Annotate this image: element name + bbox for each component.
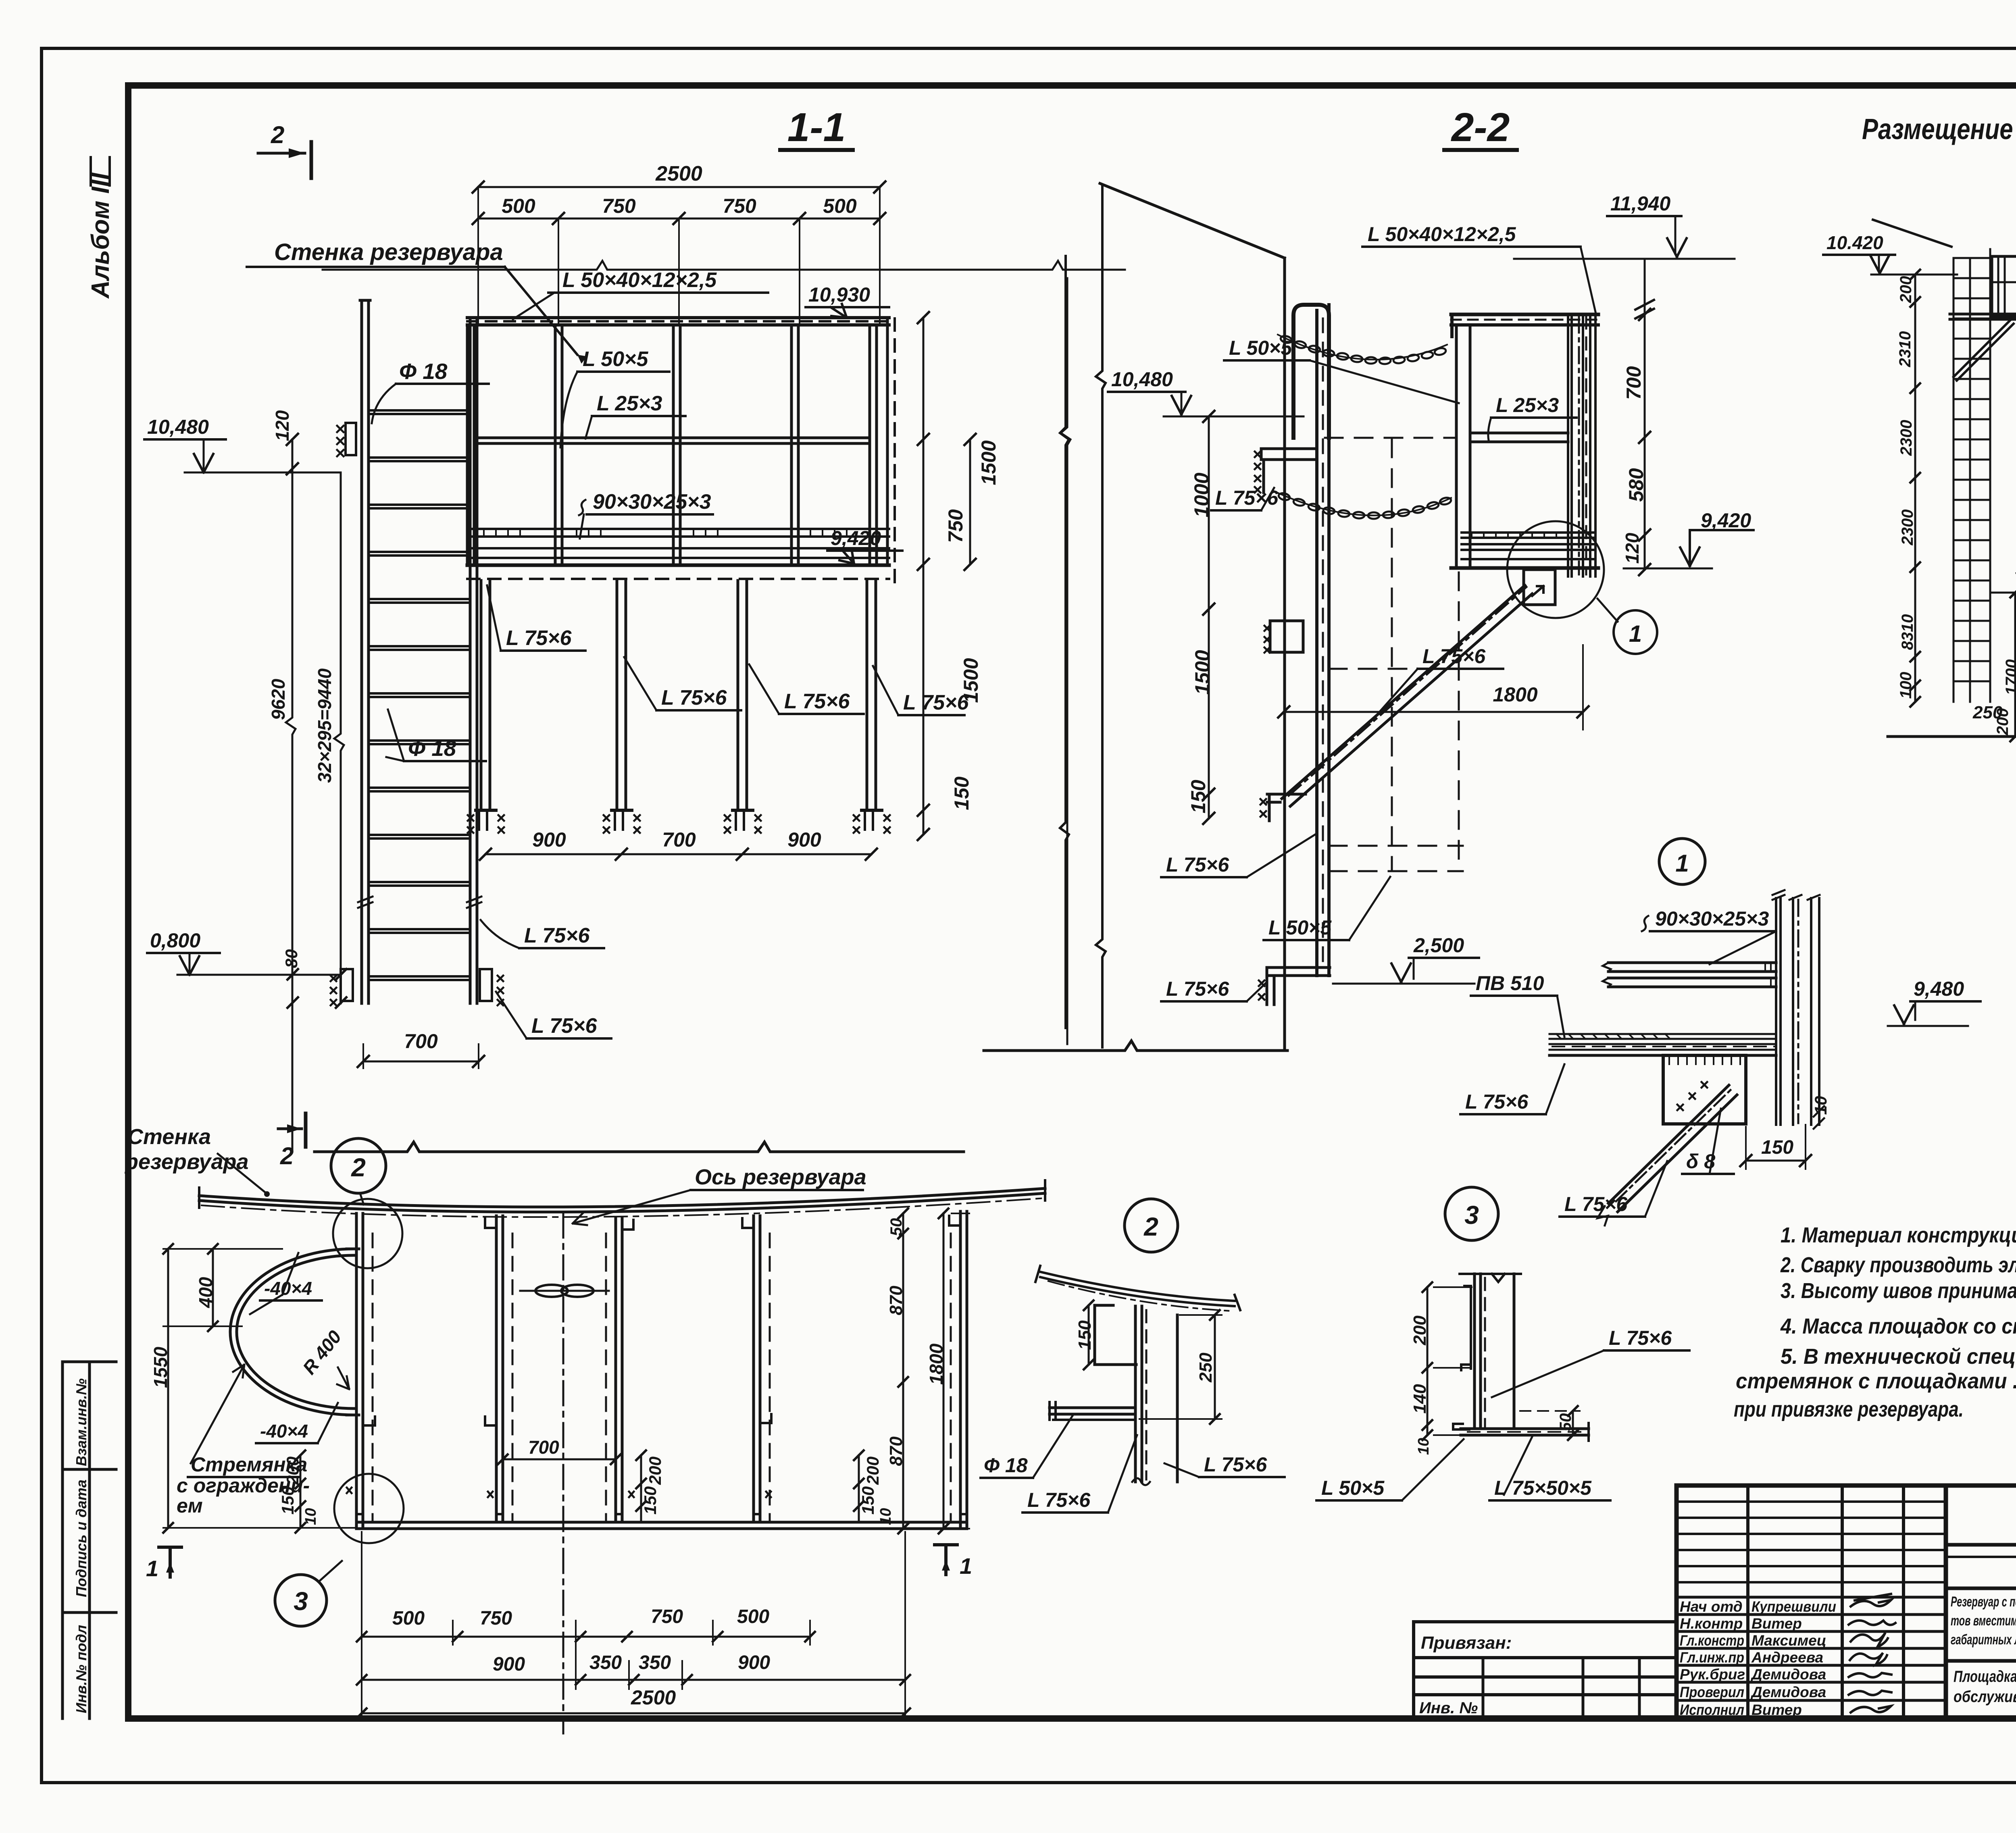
svg-text:1500: 1500	[960, 658, 982, 703]
svg-text:1550: 1550	[150, 1346, 171, 1388]
plan dim extension verticals	[362, 1532, 905, 1716]
svg-text:870: 870	[886, 1436, 906, 1466]
section mark 2 bottom	[304, 1113, 308, 1147]
svg-text:90×30×25×3: 90×30×25×3	[1655, 907, 1769, 930]
label R 400 (plan)	[298, 1326, 346, 1378]
svg-text:200: 200	[863, 1456, 882, 1485]
signature column texts	[1680, 1598, 1836, 1718]
detail 3 post	[1473, 1274, 1476, 1429]
detail 1 plank bars	[1608, 963, 1776, 987]
svg-text:Стенка: Стенка	[127, 1125, 211, 1149]
svg-text:1500: 1500	[977, 440, 1000, 485]
svg-text:Гл.констр: Гл.констр	[1680, 1632, 1744, 1649]
svg-text:L 25×3: L 25×3	[597, 392, 662, 415]
detail 1 title circle	[1659, 838, 1705, 884]
svg-text:Нач отд: Нач отд	[1680, 1598, 1743, 1615]
svg-text:Демидова: Демидова	[1750, 1684, 1826, 1700]
svg-text:400: 400	[195, 1277, 216, 1308]
svg-text:120: 120	[1622, 533, 1643, 564]
section mark 1 left	[159, 1547, 181, 1577]
detail 2 rail bar	[1050, 1406, 1134, 1409]
bottom band	[1946, 1659, 2016, 1663]
ground line 1-1	[314, 1142, 964, 1152]
tank wall top reference line	[323, 261, 1125, 270]
svg-text:150: 150	[1761, 1137, 1793, 1158]
detail circle on 2-2	[1507, 521, 1604, 618]
svg-text:10,480: 10,480	[1111, 368, 1173, 391]
svg-text:150: 150	[858, 1486, 877, 1515]
ground line 2-2	[984, 1041, 1287, 1051]
svg-text:Стенка резервуара: Стенка резервуара	[274, 239, 503, 265]
svg-text:Взам.инв.№: Взам.инв.№	[73, 1378, 90, 1466]
svg-text:L 50×40×12×2,5: L 50×40×12×2,5	[1368, 223, 1516, 246]
svg-text:1: 1	[1629, 621, 1642, 647]
detail 1 support block	[1663, 1055, 1746, 1124]
svg-text:Проверил: Проверил	[1680, 1684, 1744, 1700]
leg weld marks	[468, 815, 890, 833]
signature scribbles	[1849, 1594, 1895, 1712]
dim 2500	[478, 186, 880, 188]
svg-text:10,930: 10,930	[808, 283, 870, 306]
svg-text:Ф 18: Ф 18	[408, 736, 456, 761]
svg-text:3: 3	[1464, 1201, 1479, 1230]
plan guard hoop	[230, 1249, 354, 1415]
svg-text:Резервуар с понтоном для нефте: Резервуар с понтоном для нефтепродук-	[1951, 1594, 2016, 1610]
deck hatch 2-2	[1472, 533, 1556, 538]
svg-text:Инв.№ подл: Инв.№ подл	[73, 1625, 90, 1713]
svg-text:150: 150	[641, 1486, 660, 1515]
svg-text:Привязан:: Привязан:	[1421, 1633, 1512, 1653]
svg-text:50: 50	[887, 1218, 905, 1236]
svg-text:2: 2	[351, 1153, 366, 1182]
svg-text:500: 500	[392, 1608, 425, 1629]
svg-text:900: 900	[738, 1652, 770, 1673]
wall console lower 2-2	[1270, 621, 1303, 652]
svg-text:тов вместимостью 2000 м³ из кр: тов вместимостью 2000 м³ из крупно-	[1951, 1613, 2016, 1629]
code cell 704-1-236.88	[1946, 1543, 2016, 1547]
svg-text:9,420: 9,420	[831, 527, 881, 549]
plan bottom dim row 3 (2500)	[362, 1712, 905, 1714]
svg-text:L 75×6: L 75×6	[1027, 1489, 1091, 1511]
svg-text:750: 750	[723, 195, 756, 217]
svg-text:150: 150	[1075, 1320, 1095, 1350]
svg-text:9,480: 9,480	[1914, 978, 1964, 1000]
svg-text:Максимец: Максимец	[1752, 1632, 1826, 1649]
detail 2 roof curve	[1040, 1277, 1235, 1306]
svg-text:2500: 2500	[631, 1686, 676, 1709]
svg-text:-40×4: -40×4	[260, 1421, 308, 1442]
platform 2-2 left post	[1455, 325, 1458, 566]
wall console bracket mid	[1261, 449, 1315, 460]
svg-text:750: 750	[480, 1608, 512, 1629]
svg-text:9,420: 9,420	[1701, 509, 1751, 532]
platform legs	[481, 580, 876, 810]
svg-text:Инв. №: Инв. №	[1419, 1699, 1478, 1717]
svg-text:900: 900	[532, 828, 566, 851]
svg-text:10.420: 10.420	[1826, 232, 1883, 253]
svg-text:габаритных листов проката: габаритных листов проката	[1951, 1632, 2016, 1648]
ladder right rail	[469, 318, 472, 1003]
svg-text:140: 140	[1410, 1384, 1430, 1414]
dim 700 under ladder	[363, 1061, 479, 1063]
svg-text:2: 2	[280, 1142, 294, 1169]
weld lens symbols on centerline	[520, 1290, 609, 1292]
svg-text:870: 870	[886, 1286, 906, 1315]
svg-text:L 50×5: L 50×5	[583, 347, 648, 371]
svg-text:9620: 9620	[268, 678, 289, 720]
svg-text:2500: 2500	[655, 162, 702, 185]
platform top handrail	[467, 316, 889, 319]
post marks on bottom rail	[356, 1514, 967, 1522]
svg-text:L 75×6: L 75×6	[1609, 1327, 1672, 1349]
svg-text:Демидова: Демидова	[1750, 1666, 1826, 1683]
dim 10 detail1	[1811, 1096, 1830, 1115]
svg-text:4. Масса площадок со стремя: 4. Масса площадок со стремянкой -725 кг	[1780, 1314, 2016, 1338]
svg-text:Ось резервуара: Ось резервуара	[695, 1165, 866, 1189]
plan centerline	[562, 1213, 564, 1733]
svg-text:200: 200	[1897, 276, 1915, 304]
svg-text:900: 900	[493, 1654, 525, 1675]
chain 2	[1274, 491, 1451, 516]
svg-text:1000: 1000	[1190, 472, 1213, 517]
svg-text:2,500: 2,500	[1413, 934, 1464, 957]
svg-text:Витер: Витер	[1752, 1702, 1802, 1718]
ladder rail break marks	[358, 897, 481, 908]
svg-text:L 25×3: L 25×3	[1496, 394, 1559, 416]
svg-text:Рук.бриг: Рук.бриг	[1680, 1666, 1745, 1683]
platform 2-2 top rail	[1451, 313, 1598, 316]
left mini view: platform side box	[1992, 256, 2016, 317]
left mini view: deck	[1950, 313, 2016, 316]
svg-text:ем: ем	[177, 1494, 203, 1517]
svg-text:2. Сварку производить электр: 2. Сварку производить электродами типа 3…	[1780, 1253, 2016, 1277]
tank wall vertical	[1283, 258, 1286, 1051]
dim 250 detail2	[1196, 1352, 1216, 1383]
callout circle 1	[1597, 599, 1618, 622]
left margin stamp table	[62, 1362, 116, 1719]
svg-text:250: 250	[1196, 1352, 1216, 1383]
svg-text:580: 580	[1625, 468, 1647, 502]
left mini view: brace	[1954, 320, 2010, 377]
ladder rungs	[369, 410, 470, 980]
svg-text:150: 150	[950, 776, 973, 810]
description row	[1946, 1587, 2016, 1590]
svg-text:1-1: 1-1	[787, 105, 846, 150]
svg-text:150: 150	[278, 1486, 297, 1515]
svg-text:L 75×6: L 75×6	[1465, 1090, 1529, 1113]
svg-text:1. Материал конструкций см. в: 1. Материал конструкций см. в техническо…	[1781, 1223, 2016, 1247]
brace wall console	[1267, 794, 1306, 821]
plan beams	[496, 1216, 760, 1522]
left dim line of 2-2	[1208, 416, 1210, 818]
plan: tank wall arc	[199, 1188, 1045, 1207]
ladder loop top (bent stile)	[1293, 305, 1329, 438]
railing posts	[467, 318, 887, 564]
plan platform bottom rail	[356, 1521, 967, 1524]
svg-text:L 75×6: L 75×6	[1166, 978, 1229, 1000]
svg-text:L 75×6: L 75×6	[1564, 1193, 1628, 1215]
plan platform left edge	[355, 1213, 358, 1528]
mid rail	[474, 437, 870, 439]
title block left column verticals	[1746, 1486, 1749, 1719]
svg-text:11,940: 11,940	[1610, 192, 1670, 215]
right dim line 2-2	[1644, 259, 1646, 570]
svg-text:2300: 2300	[1897, 420, 1915, 456]
tank wall edge line (right of 1-1)	[1060, 256, 1069, 1028]
svg-text:стремянок с площадками . Ко: стремянок с площадками . Количество комп…	[1736, 1369, 2016, 1393]
svg-text:10: 10	[1811, 1096, 1830, 1115]
svg-text:L 75×50×5: L 75×50×5	[1494, 1477, 1592, 1499]
svg-text:90×30×25×3: 90×30×25×3	[593, 490, 711, 514]
svg-text:80: 80	[282, 949, 301, 968]
svg-text:L 75×6: L 75×6	[1422, 645, 1486, 668]
callout circle 2	[331, 1138, 386, 1193]
dim 150 detail2	[1075, 1320, 1095, 1350]
plan small dims left bottom	[300, 1455, 302, 1528]
detail circle 3 on plan	[334, 1474, 404, 1543]
svg-text:L 75×6: L 75×6	[524, 924, 590, 947]
callout circle 3	[275, 1575, 327, 1626]
dim 900 700 900 legs	[485, 853, 871, 855]
svg-text:10,480: 10,480	[147, 416, 209, 438]
svg-text:100: 100	[1897, 672, 1915, 699]
title block thin top rows	[1677, 1502, 1946, 1582]
album label vertical	[87, 172, 115, 299]
svg-text:200: 200	[283, 1456, 302, 1485]
svg-text:200: 200	[646, 1456, 664, 1485]
svg-text:Н.контр: Н.контр	[1680, 1615, 1743, 1632]
svg-text:L 50×5: L 50×5	[1321, 1477, 1385, 1499]
svg-text:0,800: 0,800	[150, 929, 200, 952]
svg-text:700: 700	[1622, 366, 1645, 400]
platform 2-2 right post column	[1568, 314, 1595, 576]
title block signature rows	[1677, 1597, 1946, 1700]
plan hoop dim 400	[212, 1249, 214, 1326]
svg-text:10: 10	[1415, 1438, 1432, 1455]
detail 1 post column	[1776, 898, 1819, 1125]
svg-text:L 75×6: L 75×6	[1166, 853, 1229, 876]
32x295=9440 rot text	[314, 668, 335, 783]
plan right small dims 200 150 10	[858, 1455, 860, 1522]
svg-text:Витер: Витер	[1752, 1615, 1802, 1632]
svg-text:200: 200	[1994, 708, 2012, 736]
dashed projection rectangle	[1391, 439, 1393, 871]
svg-text:2-2: 2-2	[1451, 105, 1510, 150]
svg-text:L 75×6: L 75×6	[661, 686, 727, 709]
detail 2 top bracket	[1095, 1305, 1136, 1365]
svg-text:700: 700	[662, 828, 696, 851]
svg-text:L 75×6: L 75×6	[903, 691, 969, 714]
svg-text:L 50×5: L 50×5	[1268, 916, 1332, 939]
plan right dims	[902, 1213, 904, 1529]
svg-text:32×295=9440: 32×295=9440	[314, 668, 335, 783]
svg-text:900: 900	[787, 828, 821, 851]
dim 120 (rot)	[272, 410, 293, 441]
left mini view: ladder grid	[1954, 249, 1990, 702]
svg-text:Гл.инж.пр: Гл.инж.пр	[1680, 1649, 1744, 1666]
chain 1	[1278, 335, 1447, 360]
left mini view: wall slant	[1873, 220, 1951, 247]
detail 3 bottom bar	[1461, 1427, 1589, 1430]
svg-text:L 75×6: L 75×6	[784, 690, 850, 713]
svg-text:3. Высоту швов принимать по: 3. Высоту швов принимать по толщине свар…	[1781, 1279, 2016, 1303]
dim 500 750 750 500	[478, 218, 880, 220]
svg-text:1: 1	[960, 1553, 972, 1579]
svg-text:8310: 8310	[1899, 614, 1916, 650]
svg-text:2: 2	[271, 121, 284, 148]
svg-text:150: 150	[1187, 780, 1210, 814]
plan bottom dim row 2	[362, 1679, 905, 1681]
svg-text:Андреева: Андреева	[1751, 1649, 1823, 1666]
svg-text:1700: 1700	[2003, 660, 2016, 695]
platform 2-2 deck band	[1462, 533, 1593, 559]
svg-text:500: 500	[737, 1606, 769, 1627]
svg-text:Ф 18: Ф 18	[399, 359, 448, 384]
svg-text:500: 500	[823, 195, 857, 217]
svg-text:обслуживания ГПСС-600: обслуживания ГПСС-600	[1954, 1688, 2016, 1706]
svg-text:Ф 18: Ф 18	[984, 1454, 1028, 1477]
svg-text:120: 120	[272, 410, 293, 441]
svg-text:2300: 2300	[1899, 510, 1916, 546]
diagonal brace 2-2	[1282, 585, 1525, 799]
detail circle 2 on plan	[333, 1199, 402, 1268]
svg-text:L 75×6: L 75×6	[506, 626, 572, 650]
ladder foot 2-2	[1267, 967, 1330, 1005]
svg-text:1500: 1500	[1191, 650, 1214, 695]
svg-text:50: 50	[1557, 1413, 1574, 1431]
Привязан table	[1414, 1622, 1677, 1719]
svg-text:5. В технической спецификаци: 5. В технической спецификации заказаны 2…	[1781, 1344, 2016, 1369]
dim 150 detail1	[1746, 1160, 1806, 1162]
svg-text:Купрешвили: Купрешвили	[1752, 1598, 1836, 1615]
svg-text:Альбом III: Альбом III	[87, 172, 115, 299]
svg-text:L 75×6: L 75×6	[1204, 1453, 1267, 1476]
deck band	[467, 529, 889, 558]
left dim verticals	[286, 439, 296, 1152]
tank roof slant line	[1100, 183, 1285, 258]
dim 1800	[1284, 711, 1583, 713]
svg-text:резервуара: резервуара	[124, 1150, 249, 1174]
support pad in detail circle	[1524, 570, 1555, 605]
plan dim 1550	[167, 1249, 169, 1528]
deck hatch ticks	[484, 529, 847, 537]
detail 2 post	[1134, 1306, 1137, 1482]
right dim line	[923, 318, 925, 834]
detail 3 left angle leg	[1470, 1287, 1472, 1369]
svg-text:700: 700	[404, 1030, 438, 1053]
ladder wall bracket (upper)	[346, 423, 356, 455]
svg-text:1800: 1800	[1493, 683, 1537, 706]
svg-text:Размещение площадок со стремя: Размещение площадок со стремянками	[1862, 113, 2016, 146]
ladder feet	[341, 969, 353, 1001]
detail 3 title circle	[1445, 1187, 1498, 1240]
svg-text:3: 3	[294, 1587, 308, 1616]
svg-text:Исполнил: Исполнил	[1680, 1702, 1744, 1718]
detail 1 diagonal brace	[1608, 1085, 1729, 1203]
svg-text:L 75×6: L 75×6	[531, 1014, 597, 1038]
ladder rails 2-2	[1315, 310, 1318, 976]
detail 1 deck band	[1549, 1034, 1776, 1050]
svg-text:700: 700	[528, 1437, 559, 1458]
svg-text:Площадка со стремянкой для: Площадка со стремянкой для	[1954, 1668, 2016, 1685]
ladder left rail	[360, 300, 363, 1003]
svg-text:350: 350	[589, 1652, 622, 1673]
beam top Z-connections	[485, 1216, 960, 1230]
svg-text:1: 1	[146, 1556, 158, 1581]
svg-text:2: 2	[1143, 1212, 1158, 1241]
left mini dim chain	[1914, 275, 1916, 702]
svg-text:L 50×5: L 50×5	[1229, 337, 1292, 359]
dim 50 detail3	[1572, 1411, 1574, 1435]
svg-text:при привязке резервуара.: при привязке резервуара.	[1734, 1397, 1964, 1421]
svg-text:Подпись и дата: Подпись и дата	[73, 1479, 90, 1597]
svg-text:750: 750	[651, 1606, 683, 1627]
plan platform right edge	[959, 1211, 962, 1528]
plan central small dims 200 150	[640, 1455, 642, 1522]
plan bottom dim row 1	[362, 1636, 810, 1638]
9620 rot text	[268, 678, 289, 720]
leg base plates	[476, 809, 882, 812]
svg-text:2310: 2310	[1896, 331, 1914, 368]
left mini: ground	[1888, 735, 2016, 738]
title block outer frame	[1677, 1486, 2016, 1719]
svg-text:ПВ 510: ПВ 510	[1476, 972, 1544, 995]
svg-text:1: 1	[1675, 850, 1689, 877]
svg-text:1800: 1800	[926, 1343, 947, 1385]
detail 3 dims	[1427, 1287, 1429, 1435]
svg-text:750: 750	[602, 195, 636, 217]
svg-text:750: 750	[944, 509, 967, 543]
svg-text:10: 10	[302, 1508, 319, 1525]
svg-text:L 50×40×12×2,5: L 50×40×12×2,5	[562, 268, 717, 292]
svg-text:350: 350	[639, 1652, 671, 1673]
svg-text:10: 10	[877, 1508, 894, 1525]
svg-text:500: 500	[502, 195, 535, 217]
left reference vertical with breaks	[1096, 186, 1106, 1047]
section mark 1 right	[935, 1545, 957, 1575]
dim extensions top	[478, 187, 880, 325]
svg-text:200: 200	[1410, 1315, 1430, 1346]
detail 2 title circle	[1125, 1199, 1178, 1252]
platform 2-2 mid rail	[1470, 432, 1568, 435]
